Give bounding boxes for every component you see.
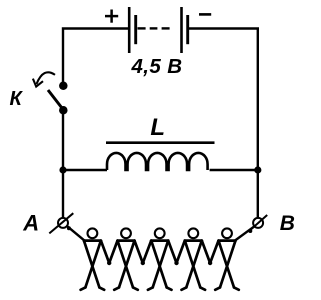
battery GB1 dashed link between cells bbox=[138, 27, 170, 29]
node: right junction of inductor branch bbox=[254, 166, 261, 173]
battery polarity mark - bbox=[199, 13, 211, 16]
switch K closing-motion arrow bbox=[33, 72, 55, 86]
node: joined hands dot persons 4-5 bbox=[208, 261, 212, 265]
person 1 (human chain conductor) bbox=[81, 228, 110, 289]
svg-text:A: A bbox=[22, 210, 39, 235]
terminal B slash bbox=[250, 215, 267, 230]
person 2 (human chain conductor) bbox=[109, 228, 143, 289]
terminal A circle bbox=[58, 218, 68, 228]
svg-text:B: B bbox=[280, 212, 295, 235]
node: grip dot at terminal B bbox=[248, 229, 252, 233]
terminal B circle bbox=[253, 218, 263, 228]
battery GB1 cell 1 short plate bbox=[134, 15, 137, 44]
inductor L coil (5 turns) bbox=[107, 153, 208, 170]
node: joined hands dot persons 2-3 bbox=[141, 261, 145, 265]
svg-text:4,5 В: 4,5 В bbox=[131, 55, 183, 78]
svg-text:L: L bbox=[150, 114, 165, 141]
switch K blade (open) bbox=[48, 90, 64, 110]
battery GB1 cell 1 long plate (+) bbox=[128, 7, 131, 53]
inductor L core line bbox=[106, 141, 215, 144]
node: joined hands dot persons 1-2 bbox=[107, 261, 111, 265]
wire: from terminal B to person 5 hand/shoulder bbox=[235, 227, 254, 241]
wire: top-right segment from battery negative terminal to right rail down to node at inductor bbox=[188, 29, 258, 171]
wire: left rail between switch and inductor node bbox=[62, 110, 64, 170]
node: left junction of inductor branch bbox=[59, 166, 66, 173]
switch K top contact node bbox=[59, 82, 68, 91]
wire: from terminal A to person 1 hand/shoulder bbox=[67, 226, 84, 240]
person 3 (human chain conductor) bbox=[143, 228, 177, 289]
wire: inductor branch left lead bbox=[63, 169, 107, 171]
wire: top-left segment from switch top up and right to battery positive plate bbox=[63, 29, 129, 88]
terminal A slash bbox=[49, 213, 73, 233]
wire: right rail from inductor node down to terminal B bbox=[257, 170, 259, 217]
wire: left rail from inductor node down to terminal A bbox=[62, 170, 64, 217]
switch K bottom contact node bbox=[59, 106, 68, 115]
person 4 (human chain conductor) bbox=[177, 228, 211, 289]
person 5 (human chain conductor) bbox=[210, 228, 239, 289]
battery GB1 cell 2 short plate (-) bbox=[186, 15, 189, 44]
node: joined hands dot persons 3-4 bbox=[174, 261, 178, 265]
battery polarity mark + bbox=[105, 10, 118, 23]
svg-text:К: К bbox=[10, 88, 24, 110]
node: grip dot at terminal A bbox=[67, 226, 71, 230]
battery GB1 cell 2 long plate bbox=[180, 7, 183, 53]
wire: inductor branch right lead bbox=[210, 169, 258, 171]
